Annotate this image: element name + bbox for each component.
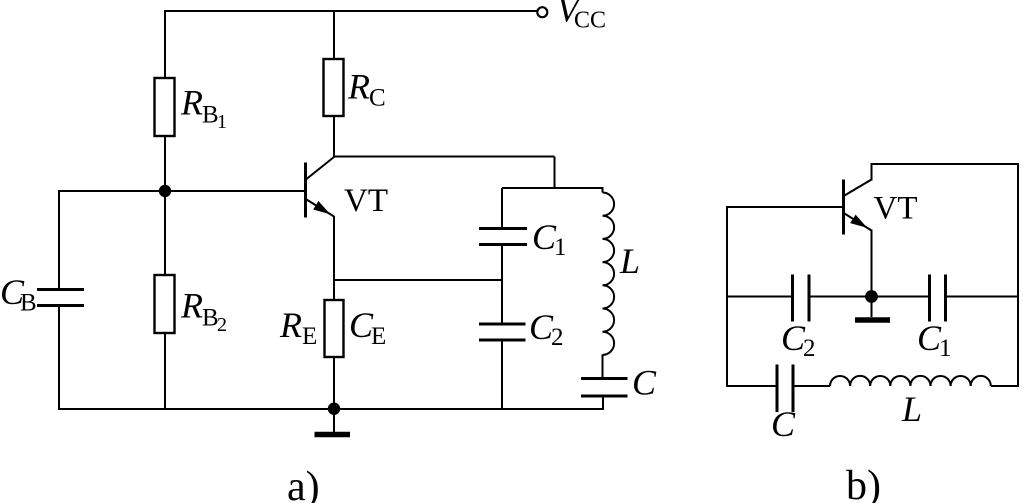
resistor RB1 xyxy=(155,78,175,136)
wire C-to-coil segment b xyxy=(793,385,830,387)
wire drop into tank top xyxy=(554,157,556,190)
wire junction to RE xyxy=(333,280,335,301)
transistor VT (a) base bar xyxy=(304,163,307,218)
svg-text:E: E xyxy=(371,323,386,350)
wire far-left vertical lower xyxy=(58,306,60,411)
wire far-left vertical upper (to CB) xyxy=(58,190,60,290)
svg-text:R: R xyxy=(279,305,302,345)
capacitor C2 (b) xyxy=(793,275,810,322)
ground bar (b) xyxy=(855,317,890,322)
wire RB2 to bottom rail xyxy=(164,333,166,409)
inductor L (b) coil xyxy=(830,376,991,386)
wire RE to ground node xyxy=(333,357,335,409)
transistor VT (b) collector riser xyxy=(871,163,873,181)
svg-text:E: E xyxy=(302,323,317,350)
transistor VT (b) emitter arrow xyxy=(850,215,867,228)
wire left drop from rail to RB1 xyxy=(164,10,166,79)
capacitor C1 (b) xyxy=(930,275,946,322)
capacitor C (a) xyxy=(581,379,628,397)
svg-text:C: C xyxy=(369,85,386,112)
svg-text:1: 1 xyxy=(554,234,567,261)
transistor VT (b) collector diagonal xyxy=(845,180,872,196)
wire bottom left segment b xyxy=(726,385,777,387)
svg-text:C: C xyxy=(771,404,796,444)
node emitter junction dot (b) xyxy=(865,290,878,303)
svg-text:R: R xyxy=(180,286,203,326)
wire right vertical b xyxy=(1017,163,1019,387)
wire tank top xyxy=(502,187,603,189)
wire middle right segment b xyxy=(946,296,1019,298)
node base-divider junction dot xyxy=(159,185,171,197)
wire emitter vertical to junction xyxy=(333,216,335,280)
capacitor C2 xyxy=(479,324,526,340)
inductor L (a) coil xyxy=(603,193,615,355)
capacitor C1 xyxy=(479,229,527,245)
wire middle left segment b xyxy=(726,296,793,298)
transistor VT (a) emitter diagonal xyxy=(307,200,335,217)
resistor RB2 xyxy=(155,275,175,333)
wire base horizontal xyxy=(59,190,305,192)
svg-text:R: R xyxy=(180,83,203,123)
capacitor C (b) xyxy=(777,365,793,413)
svg-text:L: L xyxy=(901,389,922,429)
transistor VT (a) emitter arrow xyxy=(313,201,330,214)
wire tank left to C1 xyxy=(501,188,503,229)
wire RB1 to base node xyxy=(164,136,166,192)
wire top rail b xyxy=(872,163,1019,165)
wire middle node-to-C1 segment b xyxy=(872,296,930,298)
wire C (a) to bottom rail xyxy=(602,396,604,410)
wire RC branch from rail xyxy=(333,10,335,60)
wire emitter vertical b xyxy=(871,230,873,298)
node ground junction dot xyxy=(328,403,340,415)
wire collector horizontal to tank xyxy=(334,156,555,158)
wire coil to C (a) xyxy=(602,355,604,380)
ground stub (b) xyxy=(871,297,873,318)
wire top rail a xyxy=(164,10,537,12)
svg-text:a): a) xyxy=(287,464,320,503)
svg-text:1: 1 xyxy=(217,111,227,133)
wire left vertical b xyxy=(726,206,728,387)
terminal VCC open circle xyxy=(537,7,547,17)
svg-text:b): b) xyxy=(846,463,881,503)
svg-text:2: 2 xyxy=(803,335,816,362)
svg-text:L: L xyxy=(619,241,640,281)
transistor VT (b) emitter diagonal xyxy=(845,214,872,231)
svg-text:2: 2 xyxy=(551,324,564,351)
ground bar (a) xyxy=(315,432,351,437)
resistor RC xyxy=(324,59,344,116)
wire base node to RB2 xyxy=(164,191,166,276)
svg-text:VT: VT xyxy=(344,183,388,219)
svg-text:2: 2 xyxy=(217,314,227,336)
svg-text:CC: CC xyxy=(574,8,606,34)
ground stub (a) xyxy=(333,409,335,432)
wire C2 to bottom rail xyxy=(501,340,503,409)
wire C1 to C2 xyxy=(501,245,503,325)
svg-text:VT: VT xyxy=(874,191,918,227)
wire coil-to-right segment b xyxy=(991,385,1018,387)
svg-text:B: B xyxy=(20,290,37,317)
wire middle C2-to-node segment b xyxy=(809,296,872,298)
capacitor CB xyxy=(37,290,84,306)
resistor RE xyxy=(325,300,344,357)
inductor L (a) stub xyxy=(602,187,604,193)
transistor VT (a) collector diagonal xyxy=(307,157,335,179)
transistor VT (b) base bar xyxy=(842,180,845,235)
wire RC to collector elbow xyxy=(333,116,335,158)
wire bottom rail a xyxy=(59,408,604,410)
wire base horizontal b xyxy=(727,206,843,208)
svg-text:C: C xyxy=(632,363,657,403)
svg-text:1: 1 xyxy=(939,335,952,362)
svg-text:R: R xyxy=(347,67,370,107)
wire emitter junction horizontal to tank mid xyxy=(334,279,502,281)
